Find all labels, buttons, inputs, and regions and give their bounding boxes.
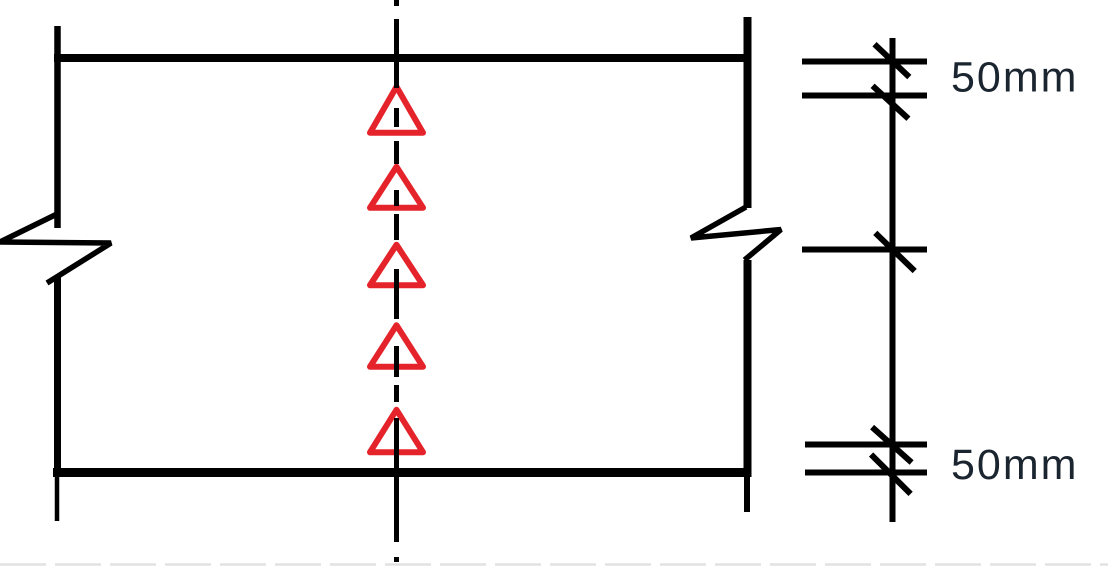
right edge upper segment xyxy=(744,17,752,208)
weld triangle T3 xyxy=(370,245,423,285)
right edge bottom tick xyxy=(744,477,750,512)
centerline dash segment 6 xyxy=(394,214,399,240)
extension line top-2 xyxy=(802,93,927,99)
bottom faint dashed line xyxy=(0,563,1108,566)
centerline dash segment 11 xyxy=(394,557,399,562)
extension line middle xyxy=(802,247,927,253)
tick mark 4 xyxy=(872,427,912,462)
right break symbol xyxy=(691,207,781,260)
tick mark 5 xyxy=(871,455,911,494)
centerline dash segment 1 xyxy=(394,0,399,6)
centerline dash segment 7 xyxy=(394,269,399,319)
right edge lower segment xyxy=(744,260,752,477)
tick mark 3 xyxy=(875,233,914,271)
left edge upper segment xyxy=(54,26,61,228)
left edge bottom tick xyxy=(55,477,60,521)
top edge xyxy=(54,54,751,62)
svg-text:50mm: 50mm xyxy=(951,441,1078,489)
centerline dash segment 10 xyxy=(394,418,399,542)
weld triangle T4 xyxy=(370,325,423,366)
tick mark 2 xyxy=(873,86,909,119)
left edge lower segment xyxy=(54,276,61,477)
centerline dash segment 9 xyxy=(394,385,399,402)
centerline dash segment 5 xyxy=(394,190,399,206)
weld triangle T5 xyxy=(370,410,423,452)
centerline dash segment 3 xyxy=(394,108,399,127)
centerline dash segment 8 xyxy=(394,346,399,377)
extension line top-1 xyxy=(802,59,927,65)
svg-text:50mm: 50mm xyxy=(951,54,1078,102)
left break symbol xyxy=(0,214,111,283)
extension line bottom-1 xyxy=(805,442,927,448)
weld triangle T2 xyxy=(370,167,423,208)
extension line bottom-2 xyxy=(805,470,927,476)
tick mark 1 xyxy=(875,44,910,77)
bottom edge xyxy=(53,468,751,477)
dimension vertical line xyxy=(890,38,896,522)
centerline dash segment 2 xyxy=(394,19,399,88)
weld triangle T1 xyxy=(370,87,423,133)
centerline dash segment 4 xyxy=(394,141,399,164)
